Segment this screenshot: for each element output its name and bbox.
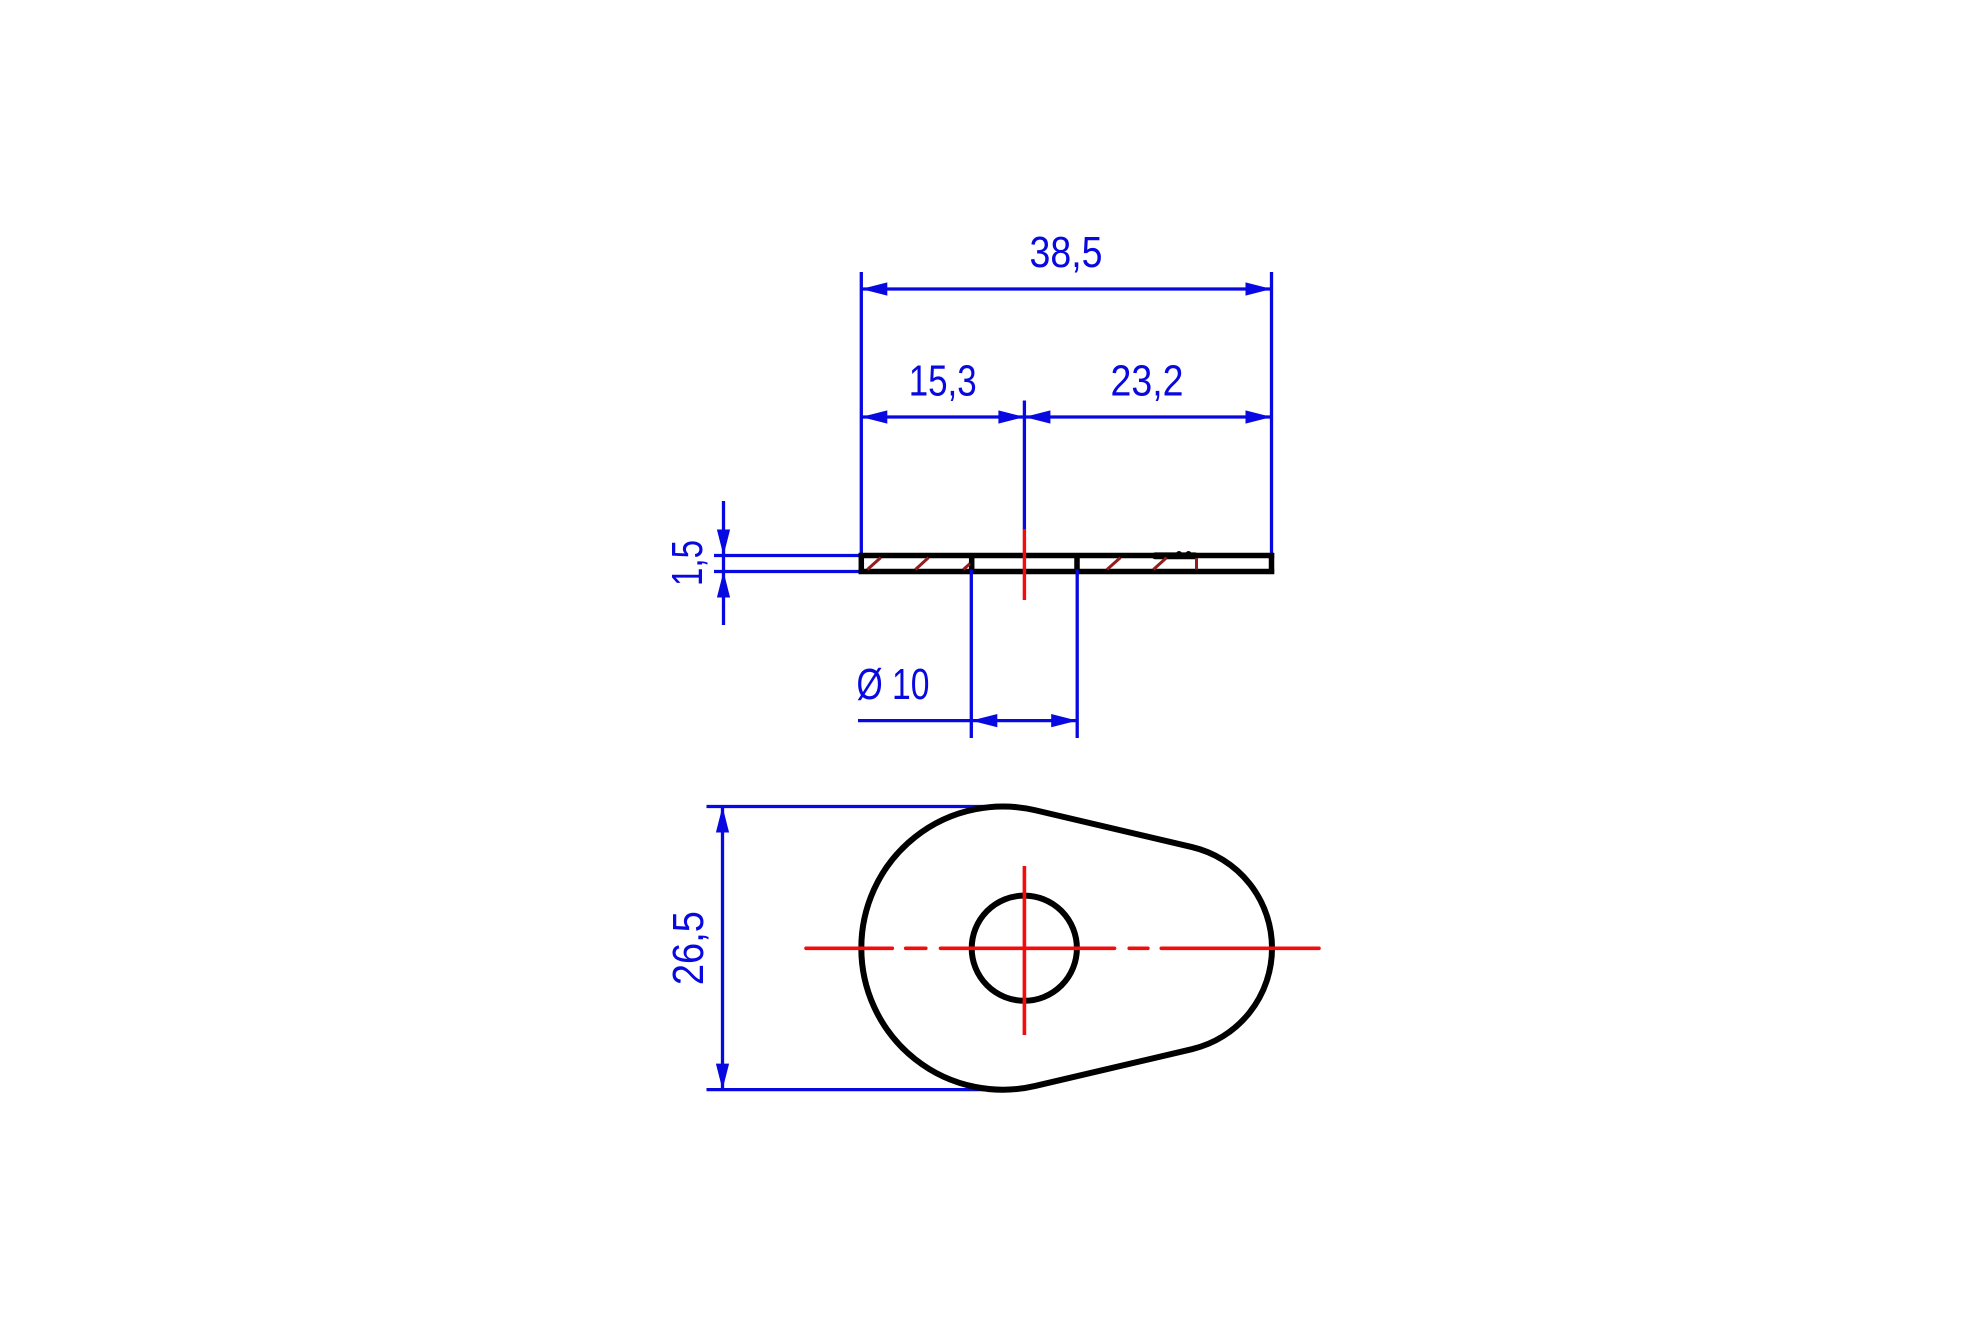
- svg-text:15,3: 15,3: [909, 357, 977, 406]
- hole circle: [972, 896, 1077, 1001]
- dimension 15,3 line: [861, 415, 1024, 418]
- hatch line 2 left segment: [915, 558, 928, 570]
- arrow top of 26,5: [716, 807, 729, 833]
- dimension 26,5 line: [721, 807, 724, 1090]
- svg-text:26,5: 26,5: [664, 911, 713, 985]
- hatch line 3 left segment (clipped at hole): [963, 564, 970, 570]
- hidden black text remnant dot a: [1176, 551, 1182, 557]
- plate section right end edge: [1269, 553, 1275, 574]
- plate section left end edge: [859, 553, 865, 574]
- red horizontal centerline dash 3: [941, 946, 1115, 950]
- hatch line 4 right segment: [1107, 558, 1120, 570]
- dimension 26,5 extension line bottom: [707, 1088, 1005, 1091]
- red horizontal centerline dash 4: [1129, 946, 1148, 950]
- hole left edge in section: [969, 553, 975, 574]
- dimension O10 extension line left: [970, 570, 973, 739]
- arrow left of 15,3: [861, 410, 887, 423]
- arrow left of O10: [971, 714, 997, 727]
- wire: extension line middle (hole axis, blue part): [1023, 401, 1026, 531]
- dimension 1,5 line: [722, 501, 725, 625]
- arrow right of O10: [1051, 714, 1077, 727]
- arrow right of 23,2: [1246, 410, 1272, 423]
- svg-text:1,5: 1,5: [663, 540, 712, 586]
- arrow above 1,5: [717, 530, 730, 556]
- plate section bottom surface line: [859, 569, 1275, 575]
- dimension 23,2 line: [1024, 415, 1271, 418]
- arrow left of 38,5: [861, 282, 887, 295]
- wire: extension line right (38,5 / 23,2): [1270, 272, 1273, 553]
- dimension 1,5 extension line bottom: [714, 570, 861, 573]
- red horizontal centerline dash 5: [1161, 946, 1319, 950]
- hatch remnant vertical right segment: [1195, 558, 1198, 570]
- arrow right of 15,3: [998, 410, 1024, 423]
- hole right edge in section: [1074, 553, 1080, 574]
- arrow left of 23,2: [1024, 410, 1050, 423]
- hidden black text remnant on top line: [1152, 552, 1198, 559]
- red horizontal centerline dash 2: [906, 946, 926, 950]
- red horizontal centerline dash 1: [806, 946, 892, 950]
- plate section top surface line: [859, 553, 1275, 559]
- dimension 38,5 line: [861, 287, 1271, 290]
- hatch line 5 right segment: [1153, 558, 1166, 570]
- hidden black text remnant dot b: [1186, 551, 1192, 557]
- dimension O10 extension line right: [1076, 570, 1079, 739]
- wire: extension line left (38,5 / 15,3): [860, 272, 863, 553]
- red vertical centerline of hole: [1023, 866, 1027, 1035]
- arrow below 1,5: [717, 572, 730, 598]
- svg-text:23,2: 23,2: [1111, 357, 1184, 406]
- hatch line 1 left segment: [867, 558, 880, 570]
- arrow right of 38,5: [1246, 282, 1272, 295]
- red centerline of hole in section: [1023, 529, 1026, 600]
- svg-text:Ø 10: Ø 10: [857, 660, 930, 709]
- teardrop plate outline: [861, 807, 1272, 1090]
- dimension 26,5 extension line top: [707, 805, 1005, 808]
- dimension O10 line with leader: [858, 719, 1077, 722]
- arrow bottom of 26,5: [716, 1064, 729, 1090]
- svg-text:38,5: 38,5: [1030, 228, 1103, 277]
- dimension 1,5 extension line top: [714, 554, 861, 557]
